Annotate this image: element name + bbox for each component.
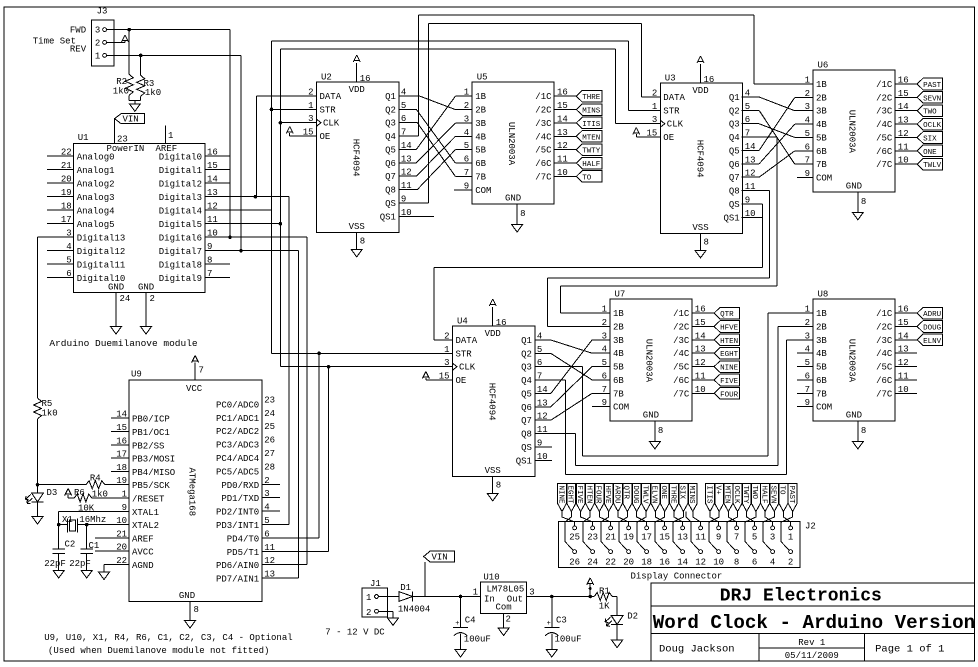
svg-text:DATA: DATA xyxy=(456,336,478,346)
svg-text:100uF: 100uF xyxy=(555,635,582,645)
svg-text:GND: GND xyxy=(505,194,521,204)
svg-text:24: 24 xyxy=(120,294,131,304)
svg-text:5: 5 xyxy=(752,533,757,543)
svg-text:SEVN: SEVN xyxy=(923,95,941,103)
svg-text:7 - 12 V DC: 7 - 12 V DC xyxy=(325,628,385,638)
svg-text:COM: COM xyxy=(816,403,832,413)
svg-text:TWTY: TWTY xyxy=(582,148,601,156)
svg-text:/1C: /1C xyxy=(535,92,552,102)
svg-text:20: 20 xyxy=(623,558,634,568)
svg-text:TWO: TWO xyxy=(750,486,758,500)
svg-text:Q1: Q1 xyxy=(521,336,532,346)
svg-text:ITIS: ITIS xyxy=(704,486,712,505)
svg-text:Com: Com xyxy=(495,603,511,613)
svg-text:QS: QS xyxy=(729,200,740,210)
svg-text:Doug Jackson: Doug Jackson xyxy=(659,644,735,656)
svg-text:Q3: Q3 xyxy=(385,119,396,129)
svg-text:J2: J2 xyxy=(805,522,816,532)
svg-text:EGHT: EGHT xyxy=(566,486,574,505)
svg-text:/5C: /5C xyxy=(673,363,690,373)
svg-text:U2: U2 xyxy=(321,73,332,83)
svg-text:7B: 7B xyxy=(816,389,827,399)
svg-text:ULN2003A: ULN2003A xyxy=(506,122,516,166)
svg-text:HCF4094: HCF4094 xyxy=(487,383,497,421)
svg-text:U1: U1 xyxy=(78,133,89,143)
svg-text:5B: 5B xyxy=(816,363,827,373)
svg-text:QS: QS xyxy=(385,199,396,209)
svg-text:2: 2 xyxy=(95,38,100,48)
svg-text:VIN: VIN xyxy=(123,114,139,124)
svg-text:VIN: VIN xyxy=(432,552,448,562)
svg-text:3B: 3B xyxy=(816,336,827,346)
svg-text:PC1/ADC1: PC1/ADC1 xyxy=(216,414,259,424)
svg-text:TO: TO xyxy=(778,486,786,496)
svg-text:Q5: Q5 xyxy=(729,146,740,156)
svg-text:26: 26 xyxy=(264,436,275,446)
svg-text:1k0: 1k0 xyxy=(145,88,161,98)
svg-text:GND: GND xyxy=(643,410,659,420)
svg-text:DATA: DATA xyxy=(320,92,342,102)
svg-text:PD1/TXD: PD1/TXD xyxy=(221,494,259,504)
svg-text:1B: 1B xyxy=(816,309,827,319)
svg-text:8: 8 xyxy=(734,558,739,568)
svg-text:ONE: ONE xyxy=(923,149,937,157)
svg-text:THRE: THRE xyxy=(668,486,676,505)
svg-text:2B: 2B xyxy=(613,322,624,332)
svg-text:VCC: VCC xyxy=(186,384,203,394)
svg-text:TO: TO xyxy=(582,174,592,182)
svg-text:8: 8 xyxy=(861,426,866,436)
svg-text:1k0: 1k0 xyxy=(42,409,58,419)
svg-text:14: 14 xyxy=(677,558,688,568)
svg-text:2B: 2B xyxy=(816,93,827,103)
svg-text:U7: U7 xyxy=(615,290,626,300)
svg-text:R2: R2 xyxy=(116,77,127,87)
svg-text:/RESET: /RESET xyxy=(132,495,165,505)
svg-text:ITIS: ITIS xyxy=(582,121,601,129)
svg-text:QS1: QS1 xyxy=(516,456,532,466)
svg-text:Q8: Q8 xyxy=(385,186,396,196)
svg-text:1K: 1K xyxy=(599,602,610,612)
svg-text:THRE: THRE xyxy=(582,94,601,102)
svg-text:19: 19 xyxy=(623,533,634,543)
svg-text:6: 6 xyxy=(264,529,269,539)
svg-text:Q6: Q6 xyxy=(521,403,532,413)
svg-text:Word Clock - Arduino Version: Word Clock - Arduino Version xyxy=(653,612,975,634)
svg-text:9: 9 xyxy=(716,533,721,543)
svg-text:6B: 6B xyxy=(613,376,624,386)
svg-text:QS1: QS1 xyxy=(723,213,739,223)
svg-text:15: 15 xyxy=(659,533,670,543)
svg-text:/4C: /4C xyxy=(876,120,893,130)
svg-text:GND: GND xyxy=(846,410,862,420)
svg-text:21: 21 xyxy=(605,533,616,543)
svg-text:ULN2003A: ULN2003A xyxy=(847,339,857,383)
svg-text:12: 12 xyxy=(695,558,706,568)
svg-text:C4: C4 xyxy=(465,616,476,626)
svg-text:25: 25 xyxy=(264,422,275,432)
svg-text:Page 1 of 1: Page 1 of 1 xyxy=(875,644,944,656)
svg-text:PB1/OC1: PB1/OC1 xyxy=(132,428,170,438)
svg-text:XTAL1: XTAL1 xyxy=(132,508,159,518)
svg-text:24: 24 xyxy=(264,409,275,419)
svg-text:/3C: /3C xyxy=(535,119,552,129)
svg-text:Q6: Q6 xyxy=(385,159,396,169)
svg-text:7B: 7B xyxy=(816,160,827,170)
svg-text:VSS: VSS xyxy=(485,466,501,476)
svg-text:11: 11 xyxy=(264,543,275,553)
svg-text:26: 26 xyxy=(569,558,580,568)
svg-text:CLK: CLK xyxy=(667,120,684,130)
svg-text:/2C: /2C xyxy=(876,93,893,103)
svg-text:Q1: Q1 xyxy=(385,92,396,102)
svg-text:PC0/ADC0: PC0/ADC0 xyxy=(216,400,259,410)
svg-text:PAST: PAST xyxy=(923,82,942,90)
svg-text:16: 16 xyxy=(496,318,507,328)
svg-text:Q7: Q7 xyxy=(385,172,396,182)
svg-text:PD6/AIN0: PD6/AIN0 xyxy=(216,561,259,571)
svg-text:VDD: VDD xyxy=(349,85,365,95)
svg-text:7B: 7B xyxy=(475,172,486,182)
svg-text:HTEN: HTEN xyxy=(720,338,738,346)
svg-text:OE: OE xyxy=(663,133,674,143)
svg-text:D2: D2 xyxy=(627,612,638,622)
svg-text:23: 23 xyxy=(587,533,598,543)
svg-text:AGND: AGND xyxy=(132,561,154,571)
svg-text:PB0/ICP: PB0/ICP xyxy=(132,415,170,425)
svg-text:In: In xyxy=(484,595,495,605)
svg-text:Q5: Q5 xyxy=(521,389,532,399)
svg-text:ATMega168: ATMega168 xyxy=(187,468,197,517)
svg-text:Q7: Q7 xyxy=(729,173,740,183)
svg-text:1B: 1B xyxy=(613,309,624,319)
svg-text:HFVE: HFVE xyxy=(603,486,611,505)
svg-text:17: 17 xyxy=(641,533,652,543)
svg-text:COM: COM xyxy=(613,403,629,413)
svg-text:XTAL2: XTAL2 xyxy=(132,521,159,531)
svg-text:8: 8 xyxy=(520,209,525,219)
svg-text:Digital4: Digital4 xyxy=(159,207,202,217)
svg-text:Digital11: Digital11 xyxy=(77,261,126,271)
svg-text:25: 25 xyxy=(569,533,580,543)
svg-text:MTEN: MTEN xyxy=(582,134,600,142)
svg-text:/7C: /7C xyxy=(876,160,893,170)
svg-text:U9: U9 xyxy=(131,370,142,380)
svg-text:8: 8 xyxy=(704,237,709,247)
svg-text:2: 2 xyxy=(506,615,511,625)
svg-text:/7C: /7C xyxy=(673,389,690,399)
svg-text:22pF: 22pF xyxy=(44,559,66,569)
svg-text:PD2/INT0: PD2/INT0 xyxy=(216,508,259,518)
svg-text:5: 5 xyxy=(264,516,269,526)
svg-text:J1: J1 xyxy=(370,579,381,589)
svg-text:7: 7 xyxy=(199,366,204,376)
svg-text:OE: OE xyxy=(456,376,467,386)
svg-text:Display Connector: Display Connector xyxy=(631,572,723,582)
svg-text:PC3/ADC3: PC3/ADC3 xyxy=(216,441,259,451)
svg-text:28: 28 xyxy=(264,462,275,472)
svg-text:16Mhz: 16Mhz xyxy=(79,515,106,525)
svg-text:13: 13 xyxy=(264,570,275,580)
svg-text:1B: 1B xyxy=(475,92,486,102)
svg-text:Analog4: Analog4 xyxy=(77,207,115,217)
svg-text:Analog3: Analog3 xyxy=(77,193,115,203)
svg-text:5B: 5B xyxy=(816,133,827,143)
svg-text:PB3/MOSI: PB3/MOSI xyxy=(132,455,175,465)
svg-text:Q2: Q2 xyxy=(385,105,396,115)
svg-text:Q3: Q3 xyxy=(521,363,532,373)
svg-text:4B: 4B xyxy=(816,349,827,359)
svg-text:C3: C3 xyxy=(556,616,567,626)
svg-text:Q6: Q6 xyxy=(729,160,740,170)
svg-text:/5C: /5C xyxy=(535,146,552,156)
svg-text:Digital3: Digital3 xyxy=(159,193,202,203)
svg-text:/4C: /4C xyxy=(535,132,552,142)
svg-text:X1: X1 xyxy=(62,515,73,525)
svg-text:8: 8 xyxy=(360,236,365,246)
svg-text:2: 2 xyxy=(788,558,793,568)
svg-text:CLK: CLK xyxy=(459,363,476,373)
svg-text:VSS: VSS xyxy=(349,222,365,232)
svg-text:Arduino Duemilanove module: Arduino Duemilanove module xyxy=(49,338,198,349)
svg-text:SIX: SIX xyxy=(923,135,937,143)
svg-text:J3: J3 xyxy=(97,7,108,17)
svg-text:1k0: 1k0 xyxy=(113,87,129,97)
svg-text:PC2/ADC2: PC2/ADC2 xyxy=(216,427,259,437)
svg-text:/2C: /2C xyxy=(535,106,552,116)
svg-text:FIVE: FIVE xyxy=(575,486,583,505)
svg-text:ULN2003A: ULN2003A xyxy=(847,110,857,154)
svg-text:4B: 4B xyxy=(475,132,486,142)
svg-text:Q4: Q4 xyxy=(729,133,740,143)
svg-text:10K: 10K xyxy=(78,504,95,514)
svg-text:/4C: /4C xyxy=(673,349,690,359)
svg-text:/6C: /6C xyxy=(535,159,552,169)
svg-text:MINS: MINS xyxy=(687,486,695,505)
svg-text:PD4/T0: PD4/T0 xyxy=(227,534,259,544)
svg-text:/3C: /3C xyxy=(876,107,893,117)
svg-text:16: 16 xyxy=(659,558,670,568)
svg-text:VDD: VDD xyxy=(692,86,708,96)
svg-text:PD7/AIN1: PD7/AIN1 xyxy=(216,575,259,585)
svg-text:D1: D1 xyxy=(400,583,411,593)
svg-text:05/11/2009: 05/11/2009 xyxy=(785,651,839,661)
svg-text:23: 23 xyxy=(117,135,128,145)
svg-text:/5C: /5C xyxy=(876,363,893,373)
svg-text:/4C: /4C xyxy=(876,349,893,359)
svg-text:4B: 4B xyxy=(816,120,827,130)
svg-text:Digital5: Digital5 xyxy=(159,220,202,230)
svg-text:Q8: Q8 xyxy=(729,187,740,197)
svg-text:4B: 4B xyxy=(613,349,624,359)
svg-text:/3C: /3C xyxy=(876,336,893,346)
svg-text:6B: 6B xyxy=(475,159,486,169)
svg-text:ELNV: ELNV xyxy=(923,338,942,346)
svg-text:ONE: ONE xyxy=(659,486,667,500)
svg-text:+: + xyxy=(455,620,459,628)
svg-text:Q2: Q2 xyxy=(521,349,532,359)
svg-text:1: 1 xyxy=(788,533,793,543)
svg-text:1: 1 xyxy=(366,593,371,603)
svg-text:ULN2003A: ULN2003A xyxy=(644,339,654,383)
svg-text:6B: 6B xyxy=(816,376,827,386)
svg-text:GND: GND xyxy=(108,283,124,293)
svg-text:16: 16 xyxy=(360,74,371,84)
svg-text:TWO: TWO xyxy=(923,109,937,117)
svg-text:PC5/ADC5: PC5/ADC5 xyxy=(216,467,259,477)
svg-text:/1C: /1C xyxy=(876,80,893,90)
svg-text:ADRU: ADRU xyxy=(923,311,941,319)
svg-text:PB2/SS: PB2/SS xyxy=(132,441,164,451)
svg-text:+: + xyxy=(547,620,551,628)
svg-text:MINS: MINS xyxy=(582,108,601,116)
svg-text:3: 3 xyxy=(95,26,100,36)
svg-text:13: 13 xyxy=(677,533,688,543)
svg-text:Analog2: Analog2 xyxy=(77,180,115,190)
svg-text:STR: STR xyxy=(320,105,337,115)
svg-text:FWD: FWD xyxy=(70,26,86,36)
svg-text:DRJ Electronics: DRJ Electronics xyxy=(720,587,882,607)
svg-text:1: 1 xyxy=(168,131,173,141)
svg-text:100uF: 100uF xyxy=(464,635,491,645)
svg-text:COM: COM xyxy=(475,186,491,196)
svg-text:(Used when Duemilanove module: (Used when Duemilanove module not fitted… xyxy=(48,646,269,656)
svg-text:OCLK: OCLK xyxy=(732,486,740,505)
svg-text:R1: R1 xyxy=(599,587,610,597)
svg-text:LM78L05: LM78L05 xyxy=(487,585,525,595)
svg-text:7B: 7B xyxy=(613,389,624,399)
svg-text:R4: R4 xyxy=(90,474,101,484)
svg-text:8: 8 xyxy=(496,480,501,490)
svg-text:U9, U10, X1, R4, R6, C1, C2, C: U9, U10, X1, R4, R6, C1, C2, C3, C4 - Op… xyxy=(44,633,292,643)
svg-text:/2C: /2C xyxy=(673,322,690,332)
svg-text:Q5: Q5 xyxy=(385,145,396,155)
svg-text:SEVN: SEVN xyxy=(769,486,777,504)
svg-text:Digital0: Digital0 xyxy=(159,153,202,163)
svg-text:12: 12 xyxy=(264,556,275,566)
svg-text:TWLV: TWLV xyxy=(640,486,648,505)
svg-text:10: 10 xyxy=(713,558,724,568)
svg-text:V+: V+ xyxy=(713,486,721,496)
svg-text:U4: U4 xyxy=(457,317,468,327)
svg-text:OCLK: OCLK xyxy=(923,122,942,130)
svg-text:Analog0: Analog0 xyxy=(77,153,115,163)
svg-text:11: 11 xyxy=(695,533,706,543)
svg-text:AREF: AREF xyxy=(132,534,154,544)
svg-text:24: 24 xyxy=(587,558,598,568)
svg-text:22: 22 xyxy=(605,558,616,568)
svg-text:PD3/INT1: PD3/INT1 xyxy=(216,521,259,531)
svg-text:PD5/T1: PD5/T1 xyxy=(227,548,259,558)
svg-text:/1C: /1C xyxy=(876,309,893,319)
svg-text:1N4004: 1N4004 xyxy=(398,605,430,615)
svg-text:1: 1 xyxy=(473,588,478,598)
svg-text:2B: 2B xyxy=(475,106,486,116)
svg-text:Q2: Q2 xyxy=(729,106,740,116)
svg-text:REV: REV xyxy=(70,45,87,55)
svg-text:3B: 3B xyxy=(613,336,624,346)
svg-text:Rev 1: Rev 1 xyxy=(798,638,825,648)
svg-text:/7C: /7C xyxy=(535,172,552,182)
svg-text:Digital8: Digital8 xyxy=(159,261,202,271)
svg-text:C1: C1 xyxy=(89,541,100,551)
svg-text:Q7: Q7 xyxy=(521,416,532,426)
svg-text:22pF: 22pF xyxy=(69,559,91,569)
svg-text:GND: GND xyxy=(179,591,195,601)
svg-text:HALF: HALF xyxy=(582,161,600,169)
svg-text:2: 2 xyxy=(366,608,371,618)
svg-text:Q3: Q3 xyxy=(729,120,740,130)
svg-text:QS1: QS1 xyxy=(380,212,396,222)
svg-text:NINE: NINE xyxy=(720,365,739,373)
svg-text:PC4/ADC4: PC4/ADC4 xyxy=(216,454,259,464)
svg-text:D3: D3 xyxy=(47,488,58,498)
svg-text:Digital6: Digital6 xyxy=(159,234,202,244)
svg-text:U10: U10 xyxy=(483,573,499,583)
svg-text:U3: U3 xyxy=(665,74,676,84)
svg-text:HCF4094: HCF4094 xyxy=(694,140,704,178)
svg-text:PD0/RXD: PD0/RXD xyxy=(221,481,259,491)
svg-text:Digital7: Digital7 xyxy=(159,247,202,257)
svg-text:FIVE: FIVE xyxy=(720,378,739,386)
svg-text:3B: 3B xyxy=(475,119,486,129)
svg-text:8: 8 xyxy=(658,426,663,436)
svg-text:U8: U8 xyxy=(818,290,829,300)
svg-text:8: 8 xyxy=(194,605,199,615)
svg-text:MTEN: MTEN xyxy=(723,486,731,504)
svg-text:18: 18 xyxy=(641,558,652,568)
svg-text:2: 2 xyxy=(150,294,155,304)
svg-text:NINE: NINE xyxy=(556,486,564,505)
svg-text:SIX: SIX xyxy=(678,486,686,500)
svg-text:PAST: PAST xyxy=(787,486,795,505)
svg-text:6: 6 xyxy=(752,558,757,568)
svg-text:FOUR: FOUR xyxy=(594,486,602,505)
svg-text:TWLV: TWLV xyxy=(923,162,942,170)
svg-text:1: 1 xyxy=(95,51,100,61)
svg-text:HFVE: HFVE xyxy=(720,324,739,332)
svg-text:GND: GND xyxy=(138,283,154,293)
svg-text:5B: 5B xyxy=(613,363,624,373)
svg-text:PB4/MISO: PB4/MISO xyxy=(132,468,175,478)
svg-text:/6C: /6C xyxy=(673,376,690,386)
svg-text:Q4: Q4 xyxy=(521,376,532,386)
svg-text:/5C: /5C xyxy=(876,133,893,143)
svg-text:AVCC: AVCC xyxy=(132,548,154,558)
svg-text:8: 8 xyxy=(861,197,866,207)
svg-text:HALF: HALF xyxy=(759,486,767,504)
svg-text:16: 16 xyxy=(704,75,715,85)
svg-text:6B: 6B xyxy=(816,147,827,157)
svg-text:C2: C2 xyxy=(65,540,76,550)
svg-text:Q8: Q8 xyxy=(521,430,532,440)
svg-text:DOUG: DOUG xyxy=(631,486,639,505)
svg-text:VSS: VSS xyxy=(692,223,708,233)
svg-text:Digital1: Digital1 xyxy=(159,166,202,176)
svg-text:/6C: /6C xyxy=(876,147,893,157)
svg-text:U5: U5 xyxy=(477,73,488,83)
svg-text:/1C: /1C xyxy=(673,309,690,319)
svg-text:ARDU: ARDU xyxy=(612,486,620,504)
svg-text:Digital9: Digital9 xyxy=(159,274,202,284)
svg-text:QS: QS xyxy=(521,443,532,453)
svg-text:TWTY: TWTY xyxy=(741,486,749,505)
svg-text:4: 4 xyxy=(770,558,775,568)
svg-text:Analog1: Analog1 xyxy=(77,166,115,176)
svg-text:Q4: Q4 xyxy=(385,132,396,142)
svg-text:PB5/SCK: PB5/SCK xyxy=(132,481,170,491)
svg-text:HCF4094: HCF4094 xyxy=(351,139,361,177)
